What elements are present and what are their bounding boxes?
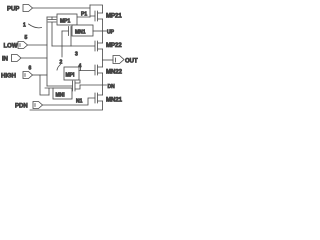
svg-text:MP22: MP22 xyxy=(106,43,122,49)
wire column MN22 to MN21 xyxy=(102,73,104,95)
svg-text:MP1: MP1 xyxy=(60,19,71,25)
box MPI label xyxy=(64,67,79,80)
wire VDD rail of predriver xyxy=(47,16,90,18)
svg-text:UP: UP xyxy=(107,30,115,36)
transistor MP22 xyxy=(52,41,122,51)
box MN1 label xyxy=(72,25,93,36)
svg-text:6: 6 xyxy=(29,66,32,72)
wire column MP21 drain to MP22 source xyxy=(102,19,104,43)
transistor MNI (vertical) xyxy=(45,88,53,95)
svg-text:PDN: PDN xyxy=(15,104,28,110)
output pin OUT xyxy=(113,56,138,65)
input pin HIGH xyxy=(1,66,33,80)
svg-text:MP21: MP21 xyxy=(106,14,122,20)
transistor MN22 xyxy=(95,65,123,76)
box MNI label xyxy=(53,88,72,99)
wire left bus vertical xyxy=(46,17,48,86)
wire ground rail xyxy=(30,101,103,110)
input pin PUP xyxy=(7,5,33,13)
svg-text:N1: N1 xyxy=(76,99,83,105)
wire column MP22 drain to out node xyxy=(102,49,104,67)
box MP1 label xyxy=(57,14,77,25)
wire PDN to MN21 gate xyxy=(43,98,96,105)
wire net P1 from PUP to MP21 gate xyxy=(33,7,91,9)
transistor MP1 (vertical, under rail) xyxy=(48,17,56,46)
svg-text:MN21: MN21 xyxy=(106,98,123,104)
reference numeral 4 xyxy=(79,64,82,71)
svg-text:LOW: LOW xyxy=(4,44,18,50)
svg-text:1: 1 xyxy=(23,23,26,29)
reference numeral 2 with leader xyxy=(57,60,63,71)
svg-text:MN22: MN22 xyxy=(106,70,123,76)
input pin LOW xyxy=(4,35,28,50)
wire vertical signal 2 xyxy=(61,31,63,57)
svg-text:DN: DN xyxy=(108,84,116,90)
svg-text:5: 5 xyxy=(25,35,28,41)
input pin PDN xyxy=(15,102,43,110)
svg-text:MPI: MPI xyxy=(66,73,76,79)
reference numeral 1 with leader xyxy=(23,23,42,29)
svg-text:3: 3 xyxy=(75,52,78,58)
transistor MN21 xyxy=(95,93,123,104)
wire HIGH xyxy=(33,74,48,76)
svg-text:HIGH: HIGH xyxy=(1,74,16,80)
wire LOW xyxy=(28,44,48,46)
input pin IN xyxy=(2,55,21,63)
svg-text:PUP: PUP xyxy=(7,7,19,13)
wire P1 vertical to MP21 gate xyxy=(90,5,95,17)
wire HIGH branch down left xyxy=(40,75,49,95)
transistor MP21 xyxy=(95,11,122,21)
svg-text:IN: IN xyxy=(2,57,8,63)
wire IN xyxy=(22,57,48,59)
svg-text:MNI: MNI xyxy=(56,93,66,99)
wire OUT tap xyxy=(103,59,114,61)
svg-text:OUT: OUT xyxy=(125,59,138,65)
transistor MN1 gate elements xyxy=(62,27,71,47)
transistor MPI predriver xyxy=(47,80,80,91)
reference numeral 3 xyxy=(75,52,78,58)
wire node UP xyxy=(93,30,107,32)
wire VDD loop top xyxy=(90,5,103,13)
wire node DN xyxy=(80,84,107,86)
wire MPI to MN22 gate xyxy=(79,70,95,72)
svg-text:MN1: MN1 xyxy=(75,30,86,36)
